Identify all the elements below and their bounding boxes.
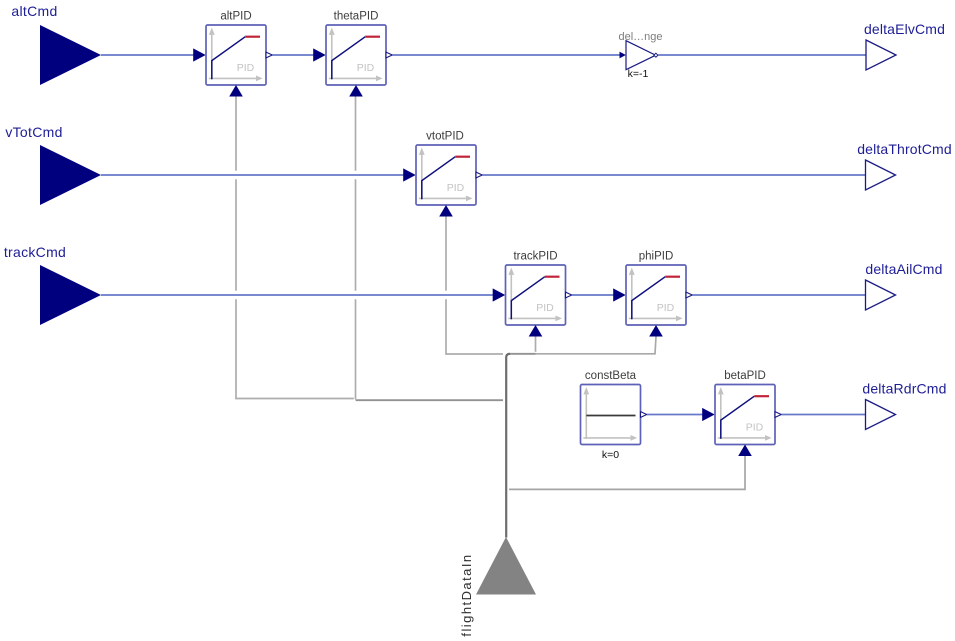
- svg-text:flightDataIn: flightDataIn: [459, 553, 474, 636]
- output port altPID: [266, 52, 272, 58]
- wire flightDataIn trunk: [506, 354, 510, 538]
- arrowhead vtotPID input: [403, 168, 416, 181]
- gain block del...nge k=-1: [618, 31, 662, 80]
- wire constBeta to betaPID: [647, 414, 703, 416]
- input connector flightDataIn: [459, 537, 536, 637]
- constant block constBeta k=0: [581, 370, 641, 461]
- wire thetaPID to gain: [393, 54, 621, 56]
- svg-text:vtotPID: vtotPID: [426, 131, 464, 143]
- wire altPID to thetaPID: [273, 54, 315, 56]
- measurement arrowhead trackPID u_m: [529, 325, 543, 337]
- arrowhead trackPID input: [493, 288, 506, 301]
- PID controller phiPID: [626, 251, 686, 326]
- output port betaPID: [775, 412, 781, 418]
- PID controller trackPID: [506, 251, 566, 326]
- wire feedback trackPID overlap segment: [508, 353, 536, 355]
- svg-text:deltaAilCmd: deltaAilCmd: [865, 261, 942, 277]
- svg-text:deltaThrotCmd: deltaThrotCmd: [857, 141, 952, 157]
- wire vTotCmd to vtotPID: [101, 174, 404, 176]
- measurement arrowhead thetaPID u_m: [349, 85, 363, 97]
- wire feedback betaPID branch: [509, 456, 745, 489]
- arrowhead altPID input: [193, 48, 206, 61]
- arrowhead betaPID input: [702, 408, 715, 421]
- output port phiPID: [686, 292, 692, 298]
- wire feedback thetaPID to bus: [356, 97, 504, 401]
- measurement arrowhead altPID u_m: [229, 85, 243, 97]
- wire trackCmd to trackPID: [101, 294, 494, 296]
- output connector deltaThrotCmd: [857, 141, 952, 190]
- output connector deltaRdrCmd: [862, 381, 946, 430]
- arrowhead phiPID input: [613, 288, 626, 301]
- PID controller betaPID: [715, 370, 775, 445]
- svg-text:constBeta: constBeta: [585, 370, 637, 382]
- arrowhead gain input: [620, 52, 626, 59]
- svg-text:k=0: k=0: [602, 449, 619, 461]
- svg-text:altPID: altPID: [220, 11, 251, 23]
- svg-text:phiPID: phiPID: [639, 251, 674, 263]
- PID controller altPID: [206, 11, 266, 86]
- measurement arrowhead vtotPID u_m: [439, 205, 453, 217]
- output port trackPID: [566, 292, 572, 298]
- wire trackPID to phiPID: [572, 294, 614, 296]
- wire feedback vtotPID to bus: [446, 217, 503, 355]
- PID controller vtotPID: [416, 131, 476, 206]
- wire betaPID to deltaRdrCmd: [782, 414, 866, 416]
- input connector vTotCmd: [5, 124, 101, 205]
- measurement arrowhead betaPID u_m: [738, 445, 752, 457]
- PID controller thetaPID: [326, 11, 386, 86]
- wire altCmd to altPID: [101, 54, 194, 56]
- measurement arrowhead phiPID u_m: [649, 325, 663, 337]
- svg-text:deltaRdrCmd: deltaRdrCmd: [862, 381, 946, 397]
- wire phiPID to deltaAilCmd: [693, 294, 866, 296]
- svg-text:trackPID: trackPID: [513, 251, 557, 263]
- svg-text:altCmd: altCmd: [11, 3, 57, 19]
- wire feedback trackPID stub: [535, 337, 537, 352]
- svg-text:k=-1: k=-1: [628, 68, 649, 80]
- input connector trackCmd: [4, 244, 101, 325]
- wire gain to deltaElvCmd: [658, 54, 866, 56]
- output connector deltaAilCmd: [865, 261, 942, 310]
- input connector altCmd: [11, 3, 101, 85]
- svg-text:trackCmd: trackCmd: [4, 244, 66, 260]
- wire vtotPID to deltaThrotCmd: [483, 174, 866, 176]
- output port constBeta: [641, 412, 647, 418]
- wire feedback phiPID to bus: [508, 337, 656, 354]
- wire feedback altPID to bus: [236, 97, 354, 399]
- svg-text:thetaPID: thetaPID: [334, 11, 379, 23]
- output connector deltaElvCmd: [864, 21, 945, 70]
- output port vtotPID: [476, 172, 482, 178]
- svg-text:vTotCmd: vTotCmd: [5, 124, 62, 140]
- svg-text:del…nge: del…nge: [618, 31, 662, 43]
- output port thetaPID: [386, 52, 392, 58]
- svg-text:deltaElvCmd: deltaElvCmd: [864, 21, 945, 37]
- arrowhead thetaPID input: [313, 48, 326, 61]
- svg-text:betaPID: betaPID: [724, 370, 766, 382]
